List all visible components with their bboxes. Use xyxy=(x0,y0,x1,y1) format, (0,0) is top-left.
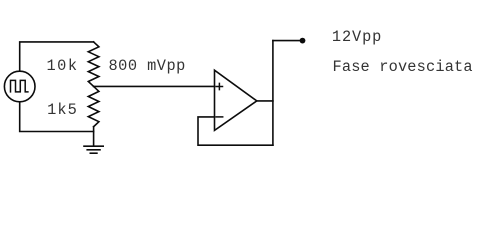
wire resistor bottom to ground xyxy=(93,127,95,147)
wire feedback loop output to inverting input xyxy=(198,117,273,145)
svg-text:10k: 10k xyxy=(47,57,79,75)
wire op-amp output xyxy=(257,100,273,102)
wire top: generator to resistor top xyxy=(20,42,94,71)
wire output top horizontal xyxy=(273,40,300,42)
op-amp plus input marker xyxy=(216,83,222,89)
resistor 1k5 zigzag xyxy=(88,86,99,126)
wire tap node to op-amp non-inverting input xyxy=(94,85,215,87)
op-amp U1 triangle xyxy=(215,70,257,130)
wire bottom: generator to resistor bottom junction xyxy=(20,102,94,132)
svg-text:800 mVpp: 800 mVpp xyxy=(109,57,186,75)
signal generator V1 circle xyxy=(4,71,35,102)
wire output vertical riser xyxy=(272,41,274,146)
output terminal dot xyxy=(300,38,306,44)
svg-text:12Vpp: 12Vpp xyxy=(332,28,382,46)
svg-text:Fase rovesciata: Fase rovesciata xyxy=(333,58,473,76)
signal generator V1 square-wave glyph xyxy=(11,80,28,92)
ground symbol xyxy=(84,146,103,153)
svg-text:1k5: 1k5 xyxy=(47,101,78,119)
op-amp minus input marker xyxy=(216,116,222,118)
resistor 10k zigzag xyxy=(88,42,99,87)
